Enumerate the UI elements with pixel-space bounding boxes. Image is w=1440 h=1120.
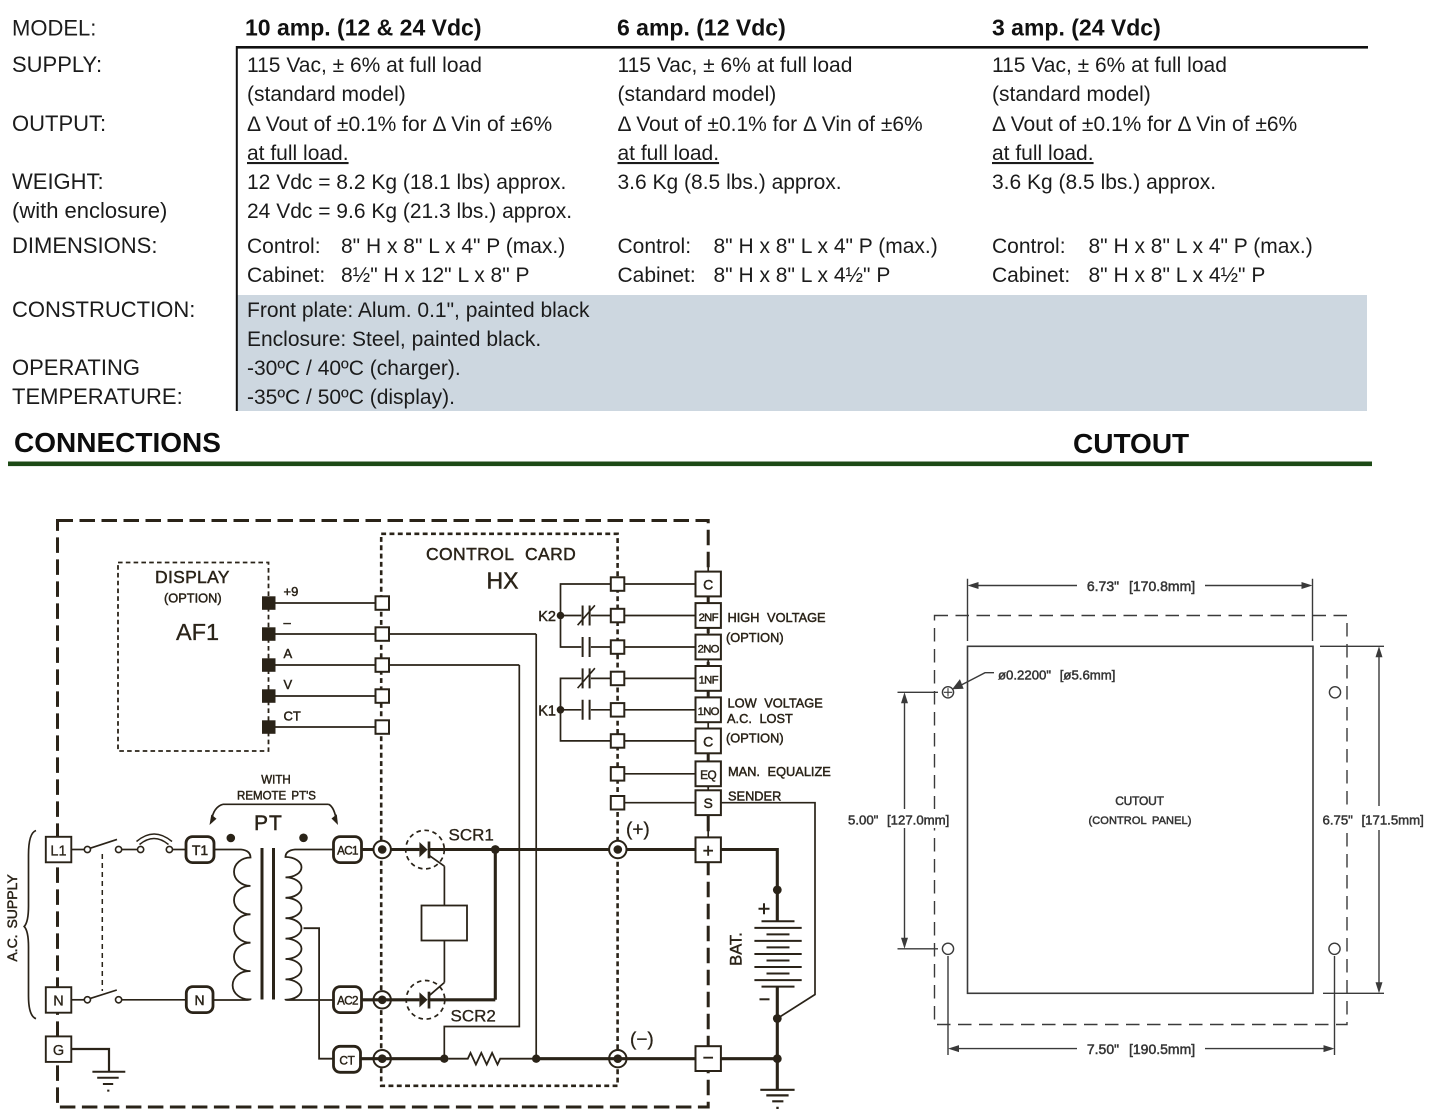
svg-text:12 Vdc = 8.2 Kg (18.1 lbs) app: 12 Vdc = 8.2 Kg (18.1 lbs) approx. (247, 171, 566, 194)
transformer PT secondary winding (286, 850, 334, 1001)
switch N pole (71, 990, 186, 1003)
hole top-left (942, 687, 953, 698)
svg-text:at full load.: at full load. (247, 142, 349, 165)
terminal CT ring (374, 1050, 391, 1067)
dimension width 7.50 (948, 956, 1335, 1057)
dimension width 6.73 (968, 578, 1313, 641)
green divider rule (8, 462, 1372, 467)
wire minus bus (721, 1057, 777, 1060)
SCR1 (406, 830, 445, 869)
card pins left column (376, 596, 390, 734)
svg-text:8" H x 8" L x 4½" P: 8" H x 8" L x 4½" P (714, 264, 891, 287)
svg-text:T1: T1 (192, 842, 209, 858)
svg-text:5.00" [127.0mm]: 5.00" [127.0mm] (848, 813, 949, 828)
node plus ring (609, 841, 626, 858)
junction dot battery bottom (773, 1014, 782, 1023)
svg-text:3.6 Kg (8.5 lbs.) approx.: 3.6 Kg (8.5 lbs.) approx. (992, 171, 1216, 194)
card pins right column (611, 577, 625, 809)
breaker arc (137, 834, 173, 845)
svg-text:TEMPERATURE:: TEMPERATURE: (12, 384, 183, 409)
transformer N terminal (186, 987, 213, 1013)
wire A (276, 665, 520, 1059)
remote PT leader arrows (212, 804, 337, 821)
svg-text:24 Vdc = 9.6 Kg (21.3 lbs.) ap: 24 Vdc = 9.6 Kg (21.3 lbs.) approx. (247, 200, 572, 223)
enclosure dashed boundary (58, 521, 709, 1108)
terminal plus (696, 837, 721, 862)
svg-text:L1: L1 (50, 843, 66, 859)
junction dot CT-A (440, 1055, 448, 1063)
label HIGH VOLTAGE (OPTION) (726, 610, 826, 645)
svg-text:MODEL:: MODEL: (12, 16, 96, 41)
terminal EQ (696, 761, 721, 786)
cutout rectangle (968, 646, 1314, 993)
SCR2 (406, 981, 445, 1020)
junction dot minus bus (773, 1054, 782, 1063)
svg-text:Enclosure: Steel, painted blac: Enclosure: Steel, painted black. (247, 328, 541, 351)
terminal 2NO (696, 635, 721, 660)
ground battery (760, 1059, 794, 1108)
terminal 2NF (696, 603, 721, 628)
svg-text:CUTOUT: CUTOUT (1073, 428, 1189, 459)
terminal strip link stubs (707, 563, 709, 838)
junction dot K1 (557, 706, 565, 714)
relay contact K1 NO (583, 700, 590, 720)
svg-text:Cabinet:: Cabinet: (618, 264, 696, 287)
svg-text:(CONTROL PANEL): (CONTROL PANEL) (1088, 815, 1191, 827)
svg-text:1NF: 1NF (699, 675, 719, 687)
svg-text:AC1: AC1 (337, 845, 358, 858)
svg-text:Δ Vout of ±0.1% for Δ Vin of ±: Δ Vout of ±0.1% for Δ Vin of ±6% (992, 113, 1297, 136)
svg-text:CT: CT (339, 1053, 354, 1067)
svg-text:115 Vac, ± 6% at full load: 115 Vac, ± 6% at full load (618, 54, 853, 77)
svg-text:(OPTION): (OPTION) (726, 730, 784, 745)
column headers (245, 15, 1161, 41)
svg-text:6.75" [171.5mm]: 6.75" [171.5mm] (1323, 813, 1424, 828)
dimension height 5.00 (845, 692, 966, 949)
svg-text:Control:: Control: (618, 235, 692, 258)
svg-text:-30ºC / 40ºC (charger).: -30ºC / 40ºC (charger). (247, 357, 461, 380)
svg-text:8" H x 8" L x 4" P (max.): 8" H x 8" L x 4" P (max.) (1089, 235, 1313, 258)
terminal AC1 ring (374, 841, 391, 858)
transformer PT primary winding (213, 850, 251, 1001)
svg-text:DIMENSIONS:: DIMENSIONS: (12, 233, 157, 258)
wire battery positive (721, 850, 777, 922)
control card dashed boundary (381, 534, 617, 1086)
svg-text:N: N (53, 994, 63, 1010)
junction dot battery top (773, 886, 782, 895)
wire AC2 to SCR2 (362, 998, 406, 1001)
svg-text:CUTOUT: CUTOUT (1115, 794, 1164, 808)
terminal minus (696, 1046, 721, 1071)
wire CT bus (361, 1057, 445, 1060)
battery minus mark (760, 998, 770, 1000)
svg-text:6 amp. (12 Vdc): 6 amp. (12 Vdc) (617, 15, 786, 41)
terminal AC2 ring (374, 991, 391, 1008)
svg-text:SUPPLY:: SUPPLY: (12, 52, 102, 77)
svg-text:SENDER: SENDER (728, 789, 781, 804)
svg-text:Front plate: Alum. 0.1", paint: Front plate: Alum. 0.1", painted black (247, 299, 590, 322)
CUTOUT-DRAWING (845, 578, 1439, 1057)
svg-text:G: G (53, 1043, 64, 1059)
hole bottom-right (1329, 943, 1340, 954)
wire CT-display (276, 726, 376, 728)
svg-text:K1: K1 (538, 703, 556, 719)
panel dashed outline (935, 616, 1348, 1025)
svg-text:N: N (195, 992, 205, 1008)
svg-text:Δ Vout of ±0.1% for Δ Vin of ±: Δ Vout of ±0.1% for Δ Vin of ±6% (247, 113, 552, 136)
svg-text:2NO: 2NO (698, 643, 720, 655)
svg-text:Control:: Control: (247, 235, 321, 258)
svg-text:8½" H x 12" L x 8" P: 8½" H x 12" L x 8" P (341, 264, 530, 287)
node minus ring (609, 1050, 626, 1067)
terminal CT (334, 1046, 361, 1072)
svg-text:Cabinet:: Cabinet: (247, 264, 325, 287)
svg-text:−: − (703, 1048, 714, 1069)
svg-text:CONSTRUCTION:: CONSTRUCTION: (12, 297, 195, 322)
svg-text:MAN. EQUALIZE: MAN. EQUALIZE (728, 764, 831, 779)
terminal C (high voltage common) (696, 572, 721, 597)
svg-text:BAT.: BAT. (728, 932, 746, 966)
svg-text:EQ: EQ (700, 768, 716, 782)
terminal 1NF (696, 666, 721, 691)
hole top-right (1329, 687, 1340, 698)
relay contact K2 NC (578, 605, 595, 625)
svg-text:(−): (−) (630, 1030, 654, 1051)
dimension height 6.75 (1320, 646, 1439, 993)
svg-text:HIGH VOLTAGE: HIGH VOLTAGE (728, 610, 826, 625)
svg-text:(+): (+) (626, 820, 650, 841)
terminal 1NO (696, 697, 721, 722)
svg-text:+: + (703, 841, 714, 862)
svg-text:C: C (703, 733, 713, 749)
junction dot SCR1 output (491, 845, 500, 854)
svg-text:SCR2: SCR2 (451, 1007, 496, 1026)
svg-text:115 Vac, ± 6% at full load: 115 Vac, ± 6% at full load (247, 54, 482, 77)
resistor shunt (449, 1053, 537, 1065)
svg-text:OPERATING: OPERATING (12, 355, 140, 380)
wire +9 (276, 602, 376, 604)
svg-text:LOW VOLTAGE: LOW VOLTAGE (728, 696, 823, 711)
svg-text:(standard model): (standard model) (992, 83, 1151, 106)
junction dot K2 (557, 612, 565, 620)
terminal C (low voltage common) (696, 729, 721, 754)
svg-text:CONNECTIONS: CONNECTIONS (14, 427, 221, 458)
svg-text:(OPTION): (OPTION) (164, 591, 222, 606)
wire CT tap (304, 928, 334, 1058)
terminal S (696, 790, 721, 815)
construction/temperature shaded band (238, 295, 1368, 411)
relay contact K1 NC (578, 668, 595, 688)
hole diameter callout (952, 668, 1115, 691)
svg-text:115 Vac, ± 6% at full load: 115 Vac, ± 6% at full load (992, 54, 1227, 77)
svg-text:ø0.2200" [ø5.6mm]: ø0.2200" [ø5.6mm] (998, 668, 1115, 683)
wire plus bus (362, 848, 696, 851)
svg-text:-35ºC / 50ºC (display).: -35ºC / 50ºC (display). (247, 386, 455, 409)
label LOW VOLTAGE A.C. LOST (OPTION) (726, 696, 823, 746)
terminal G (46, 1036, 72, 1062)
svg-text:CT: CT (284, 709, 301, 724)
terminal AC2 (334, 987, 362, 1013)
svg-text:V: V (284, 677, 293, 692)
svg-text:3 amp. (24 Vdc): 3 amp. (24 Vdc) (992, 15, 1161, 41)
display terminal pins (262, 596, 276, 734)
switch gang link (101, 854, 103, 991)
phasing dot secondary (299, 834, 308, 843)
svg-text:A.C. LOST: A.C. LOST (727, 711, 793, 726)
svg-text:A: A (284, 646, 293, 661)
transformer core (262, 848, 274, 1000)
svg-text:DISPLAY: DISPLAY (155, 567, 230, 587)
battery plus mark (759, 903, 770, 914)
svg-text:(standard model): (standard model) (618, 83, 777, 106)
svg-text:Cabinet:: Cabinet: (992, 264, 1070, 287)
wire driver to SCR2 gate (443, 941, 445, 983)
terminal L1 (46, 837, 72, 863)
wire sender (721, 803, 815, 1019)
svg-text:(OPTION): (OPTION) (726, 630, 784, 645)
svg-text:AF1: AF1 (176, 619, 219, 645)
svg-text:CONTROL CARD: CONTROL CARD (426, 544, 576, 564)
svg-text:8" H x 8" L x 4" P (max.): 8" H x 8" L x 4" P (max.) (714, 235, 938, 258)
battery BAT (754, 921, 801, 986)
svg-text:Control:: Control: (992, 235, 1066, 258)
terminal AC1 (334, 837, 362, 863)
svg-text:SCR1: SCR1 (449, 826, 494, 845)
wire G to ground (71, 1049, 109, 1072)
svg-text:(standard model): (standard model) (247, 83, 406, 106)
column 3 (992, 54, 1313, 287)
row labels (12, 16, 195, 410)
transformer T1 terminal (186, 837, 214, 863)
svg-text:REMOTE PT'S: REMOTE PT'S (237, 790, 316, 802)
svg-text:6.73" [170.8mm]: 6.73" [170.8mm] (1087, 578, 1195, 594)
svg-text:PT: PT (254, 812, 283, 835)
hole bottom-left (942, 943, 953, 954)
switch L1 pole (71, 839, 186, 852)
wires card pins to terminal strip (624, 584, 695, 803)
header underline (236, 46, 1368, 49)
wire SCR cathode join (429, 850, 495, 1000)
brace A.C. supply (24, 831, 36, 1019)
svg-text:at full load.: at full load. (618, 142, 720, 165)
wire minus (276, 634, 537, 1059)
svg-text:S: S (704, 795, 713, 811)
svg-text:3.6 Kg (8.5 lbs.) approx.: 3.6 Kg (8.5 lbs.) approx. (618, 171, 842, 194)
gate driver block (422, 906, 468, 941)
svg-text:1NO: 1NO (698, 706, 720, 718)
svg-text:OUTPUT:: OUTPUT: (12, 111, 106, 136)
node K2 bracket (561, 584, 611, 647)
svg-text:8" H x 8" L x 4" P (max.): 8" H x 8" L x 4" P (max.) (341, 235, 565, 258)
column 1 (247, 54, 590, 409)
svg-text:7.50" [190.5mm]: 7.50" [190.5mm] (1087, 1041, 1195, 1057)
phasing dot primary (227, 834, 236, 843)
junction dot minus-A (532, 1055, 540, 1063)
SCHEMATIC-POWER (4, 775, 406, 1091)
table vertical divider (236, 46, 238, 411)
svg-text:–: – (284, 615, 292, 630)
svg-text:2NF: 2NF (699, 612, 719, 624)
svg-text:A.C. SUPPLY: A.C. SUPPLY (4, 874, 20, 962)
svg-text:at full load.: at full load. (992, 142, 1094, 165)
svg-text:Δ Vout of ±0.1% for Δ Vin of ±: Δ Vout of ±0.1% for Δ Vin of ±6% (618, 113, 923, 136)
column 2 (618, 54, 938, 287)
node K1 bracket (561, 678, 611, 741)
wire battery negative (776, 987, 779, 1059)
svg-text:+9: +9 (284, 584, 299, 599)
svg-text:10 amp. (12 & 24 Vdc): 10 amp. (12 & 24 Vdc) (245, 15, 482, 41)
svg-text:AC2: AC2 (337, 995, 358, 1008)
wire V (276, 695, 376, 697)
svg-text:8" H x 8" L x 4½" P: 8" H x 8" L x 4½" P (1089, 264, 1266, 287)
svg-text:HX: HX (487, 568, 519, 594)
svg-text:K2: K2 (538, 609, 556, 625)
svg-text:C: C (703, 577, 713, 593)
svg-text:WEIGHT:: WEIGHT: (12, 169, 104, 194)
relay contact K2 NO (583, 637, 590, 657)
ground supply (92, 1072, 125, 1091)
svg-text:WITH: WITH (261, 775, 290, 787)
wire minus bus left (536, 1057, 695, 1060)
terminal N (supply) (46, 987, 72, 1013)
wire SCR1 gate to driver (443, 866, 445, 905)
svg-text:(with enclosure): (with enclosure) (12, 198, 167, 223)
display AF1 dashed box (118, 563, 269, 752)
